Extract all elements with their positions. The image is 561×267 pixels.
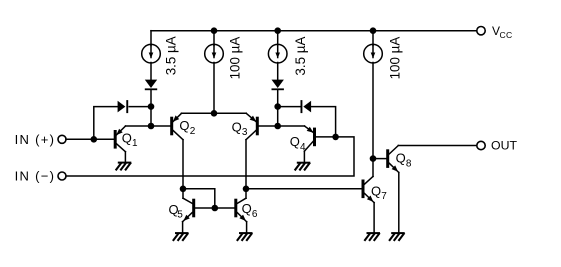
wire I2 to diff pair emitters: [213, 63, 215, 114]
transistor Q7: [362, 176, 375, 202]
node B junction: [148, 123, 155, 130]
svg-text:4: 4: [300, 142, 306, 153]
wire rail to I4: [372, 31, 374, 46]
wire node D to Q4 emitter: [278, 125, 305, 127]
label Q2: [179, 118, 195, 137]
current source I3 3.5uA: [268, 44, 287, 63]
wire rail to I2: [213, 31, 215, 46]
label 3.5 uA (I1): [164, 36, 179, 75]
svg-text:Q: Q: [232, 119, 242, 134]
label Q5: [169, 202, 184, 221]
wire Q8 collector to OUT: [398, 145, 477, 147]
wire Q5 collector to node H: [182, 189, 184, 198]
svg-text:IN (−): IN (−): [15, 169, 56, 184]
ground below Q5: [174, 233, 188, 240]
IN(-) terminal: [58, 172, 66, 180]
svg-text:IN (+): IN (+): [15, 132, 56, 147]
wire D1 cathode to node A: [129, 106, 151, 108]
diode D4: [272, 80, 284, 91]
label IN(+): [15, 132, 56, 147]
node G junction emitter rail: [211, 110, 218, 117]
wire Q1 emitter to node B: [126, 125, 152, 127]
wire node B to Q2 base: [151, 125, 170, 127]
label Q1: [122, 130, 138, 149]
label Q8: [396, 151, 412, 170]
wire D3 to node A: [150, 90, 152, 107]
junction on rail above I2: [211, 27, 218, 34]
wire rail to I3: [277, 31, 279, 46]
wire from rail to current source I1: [150, 31, 152, 46]
node H junction: [180, 186, 187, 193]
wire Q6 emitter to ground: [246, 222, 248, 233]
svg-text:8: 8: [406, 158, 412, 169]
transistor Q1: [114, 126, 126, 152]
label VCC: [492, 24, 513, 40]
svg-text:6: 6: [252, 209, 258, 220]
OUT terminal: [477, 141, 485, 149]
label OUT: [491, 139, 517, 153]
wire Q8 emitter to ground: [398, 173, 400, 234]
svg-text:Q: Q: [371, 184, 381, 199]
transistor Q4: [304, 126, 316, 151]
junction on rail above I4: [370, 27, 377, 34]
wire node E to Q8 base: [373, 158, 386, 160]
wire IN(-) to Q4 base node: [66, 137, 354, 176]
wire Q1 collector to ground: [124, 152, 126, 163]
svg-text:1: 1: [132, 138, 138, 149]
transistor Q5: [183, 198, 196, 222]
node J junction Q4 base: [332, 134, 339, 141]
svg-text:100 µA: 100 µA: [228, 37, 243, 80]
svg-text:100 µA: 100 µA: [388, 37, 403, 80]
node F junction on IN(+) line: [91, 136, 98, 143]
wire Q2 collector down: [182, 140, 184, 189]
wire Q4 collector to ground: [303, 151, 305, 163]
transistor Q2: [170, 113, 183, 139]
wire Q7 emitter to ground: [373, 203, 375, 234]
diode D3: [145, 80, 157, 91]
wire I1 to diode D3: [150, 63, 152, 80]
wire Q7 collector to node E: [372, 159, 374, 177]
diode D1: [118, 100, 129, 113]
svg-text:2: 2: [190, 126, 196, 137]
wire top VCC rail: [151, 30, 477, 32]
wire node C to diode D2: [278, 106, 301, 108]
wire node A to node B: [150, 107, 152, 126]
wire I4 to node E: [372, 63, 374, 159]
ground below Q4: [295, 163, 309, 170]
current source I4 100uA: [364, 44, 383, 63]
svg-text:Q: Q: [242, 201, 252, 216]
wire node F up to diode D1: [94, 107, 118, 140]
node C junction: [274, 103, 281, 110]
svg-text:3.5 µA: 3.5 µA: [293, 37, 308, 76]
wire mirror bridge node H to node K: [183, 189, 215, 208]
node A junction: [148, 103, 155, 110]
wire diff-pair emitter rail: [182, 112, 247, 114]
wire Q3 collector down: [245, 140, 247, 189]
svg-text:3.5 µA: 3.5 µA: [164, 36, 179, 75]
current source I1 3.5uA: [142, 44, 161, 63]
wire D2 anode to Q4 base node: [311, 107, 336, 137]
transistor Q6: [234, 198, 246, 222]
svg-text:5: 5: [177, 210, 183, 221]
wire IN(+) to Q1 base: [66, 138, 114, 140]
node D junction: [274, 123, 281, 130]
svg-text:Q: Q: [179, 118, 189, 133]
node I junction: [243, 186, 250, 193]
label 100 uA (I4): [388, 37, 403, 80]
svg-text:3: 3: [242, 127, 248, 138]
ground below Q8: [390, 233, 404, 240]
ground below Q6: [238, 233, 252, 240]
label 3.5 uA (I3): [293, 37, 308, 76]
wire Q5 emitter to ground: [182, 222, 184, 233]
svg-text:OUT: OUT: [491, 139, 517, 153]
node E junction: [370, 155, 377, 162]
VCC terminal: [477, 27, 485, 35]
svg-text:Q: Q: [290, 134, 300, 149]
wire D4 to node C: [277, 90, 279, 107]
IN(+) terminal: [58, 135, 66, 143]
label Q6: [242, 201, 258, 220]
transistor Q8: [386, 146, 399, 173]
current source I2 100uA: [205, 44, 224, 63]
wire I3 to diode D4: [277, 63, 279, 80]
ground below Q1: [116, 163, 130, 170]
wire Q3 base to node D: [259, 125, 278, 127]
label IN(-): [15, 169, 56, 184]
wire node I to Q7 base: [246, 188, 362, 190]
svg-text:7: 7: [381, 191, 387, 202]
transistor Q3: [246, 113, 259, 139]
label 100 uA (I2): [228, 37, 243, 80]
wire node C to node D: [277, 107, 279, 126]
junction on rail above I3: [274, 27, 281, 34]
label Q4: [290, 134, 306, 153]
label Q7: [371, 184, 387, 203]
diode D2: [301, 100, 312, 113]
svg-text:Q: Q: [396, 151, 406, 166]
svg-text:Q: Q: [122, 130, 132, 145]
wire Q5-Q6 base rail: [195, 207, 234, 209]
wire Q6 collector to node I: [245, 189, 247, 198]
label Q3: [232, 119, 248, 138]
ground below Q7: [365, 233, 379, 240]
wire Q4 base to node J: [316, 136, 336, 138]
node K junction base rail: [212, 205, 219, 212]
svg-text:CC: CC: [500, 30, 513, 40]
